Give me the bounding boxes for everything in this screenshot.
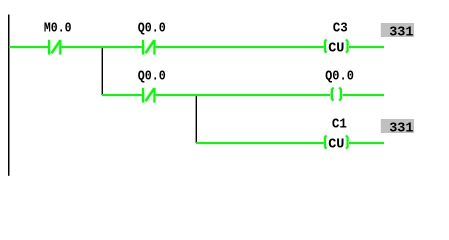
svg-text:CU: CU (328, 42, 344, 57)
svg-text:C3: C3 (333, 22, 348, 37)
svg-text:331: 331 (389, 26, 413, 41)
svg-text:331: 331 (389, 122, 413, 137)
svg-text:C1: C1 (332, 118, 347, 133)
svg-text:Q0.0: Q0.0 (138, 22, 166, 37)
svg-text:Q0.0: Q0.0 (325, 70, 354, 85)
svg-text:M0.0: M0.0 (44, 22, 72, 37)
svg-text:Q0.0: Q0.0 (138, 70, 166, 85)
svg-text:CU: CU (328, 138, 344, 153)
